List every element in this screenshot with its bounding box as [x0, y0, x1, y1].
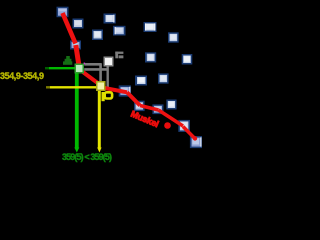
red label dot: [164, 122, 171, 129]
red rotated label Muskel: [129, 109, 160, 130]
mass node S12: [166, 100, 176, 110]
selected node green square: [75, 64, 85, 74]
yellow y-axis line: [98, 90, 101, 149]
chain mass node C7 (tilted): [178, 120, 190, 132]
yellow x-axis dark tip: [46, 86, 50, 88]
yellow label P: [102, 92, 113, 101]
yellow x-axis line: [50, 86, 97, 88]
chain mass node C6: [152, 104, 163, 114]
green y-axis line: [75, 70, 79, 149]
muscle spring segment 6: [140, 106, 159, 111]
ghost gray line H2: [84, 68, 107, 71]
yellow y-axis arrowhead: [97, 148, 101, 153]
svg-text:359(5) < 359(5): 359(5) < 359(5): [62, 152, 112, 162]
chain mass node C8 (tilted): [190, 136, 202, 148]
green x-axis line: [49, 67, 75, 69]
mass node S6: [144, 22, 157, 32]
muscle spring segment 4: [105, 88, 128, 92]
muscle spring segment 3: [80, 70, 98, 83]
mass node S1: [57, 7, 69, 18]
chain mass node C1: [70, 41, 81, 50]
muscle spring segment 7: [159, 110, 184, 126]
mass node S11: [158, 73, 169, 83]
mass node S10: [135, 76, 147, 86]
muscle spring end blob: [193, 136, 197, 140]
selected node yellow square: [96, 81, 106, 91]
mass node S5: [113, 26, 126, 36]
mass node S3: [92, 30, 103, 41]
muscle spring segment 1: [63, 13, 76, 44]
ghost gray line H1: [84, 63, 101, 66]
muscle spring segment 5: [127, 92, 140, 105]
chain mass node C5: [134, 101, 145, 111]
ghost gray label F: [115, 52, 123, 59]
green y-axis arrowhead: [74, 148, 79, 153]
magenta handle dot 1: [84, 63, 86, 65]
mass node S4: [104, 14, 116, 24]
mass node S8: [145, 52, 156, 62]
svg-text:354,9-354,9: 354,9-354,9: [0, 71, 44, 81]
muscle spring segment 8: [183, 127, 195, 139]
muscle spring segment 2: [76, 45, 79, 66]
mass node S7: [168, 32, 179, 42]
ghost gray line V1: [99, 63, 102, 84]
chain mass node C4 (tilted): [119, 85, 131, 96]
mass node S2: [73, 19, 84, 29]
ghost white node square: [104, 57, 114, 67]
dark green triangle marker: [63, 56, 72, 65]
green x-axis dark tip: [45, 67, 49, 69]
mass node S9: [182, 54, 193, 65]
ghost gray line V2: [106, 67, 108, 89]
